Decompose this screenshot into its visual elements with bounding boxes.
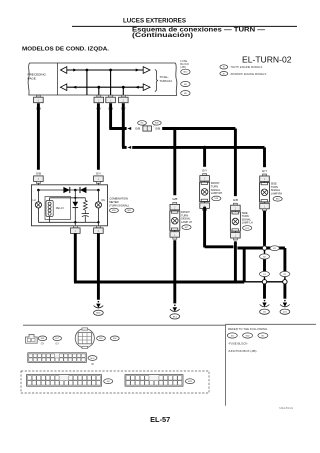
refer ovals — [227, 333, 237, 338]
inline connector oval on wire 3 — [280, 271, 290, 276]
side LH lamp ground wire — [234, 242, 237, 283]
link junction — [243, 248, 246, 282]
meter RH top connector — [94, 176, 104, 182]
connector face view small block — [26, 334, 38, 343]
wire below joint B1 — [264, 250, 266, 254]
tap junction node top-1 — [86, 69, 89, 72]
side turn signal lamp RH body — [264, 182, 266, 184]
svg-text:(TURN SIGNAL): (TURN SIGNAL) — [109, 203, 129, 207]
svg-text:MEL894G: MEL894G — [279, 406, 294, 410]
svg-text:REFER TO THE FOLLOWING.: REFER TO THE FOLLOWING. — [228, 327, 268, 331]
inline connector refs ovals — [138, 121, 147, 125]
svg-text:LH: LH — [32, 198, 35, 202]
refer box border vertical — [225, 324, 227, 406]
tap junction node bottom-1 — [97, 86, 100, 89]
refer box border top — [226, 323, 316, 325]
front RH lamp ground wire — [203, 207, 206, 248]
ground bus — [98, 281, 244, 284]
joint circle row link — [244, 281, 262, 283]
wire bus top — [61, 69, 144, 71]
tap wire bottom-1 — [98, 87, 100, 95]
front turn signal lamp LH label — [181, 210, 192, 224]
svg-text:LAMP LH: LAMP LH — [242, 221, 253, 225]
extra ref oval — [110, 336, 119, 341]
svg-text:: TD27Ti ENGINE MODELS: : TD27Ti ENGINE MODELS — [229, 65, 263, 69]
relay box — [45, 197, 71, 220]
wire drop to side turn signal lamp LH — [234, 129, 237, 197]
direction arrow on G/Y run — [127, 146, 131, 149]
svg-text:G/Y: G/Y — [202, 169, 207, 173]
svg-text:G/Y: G/Y — [262, 169, 267, 173]
meter bottom connector left — [74, 222, 76, 226]
node meter LH top — [37, 189, 40, 192]
arrow out left bottom — [61, 84, 67, 91]
svg-text:-FUSE BLOCK-: -FUSE BLOCK- — [228, 341, 248, 345]
side turn signal lamp LH bottom connector — [234, 231, 236, 232]
meter internal ground bus — [38, 221, 98, 223]
svg-text:MODELOS DE COND. IZQDA.: MODELOS DE COND. IZQDA. — [22, 47, 109, 53]
combination meter box U1 — [32, 185, 108, 226]
diode D2 — [80, 187, 86, 193]
footnote ZD oval — [220, 72, 228, 76]
fuse block ref oval 3 — [181, 91, 190, 96]
svg-text:LAMP RH: LAMP RH — [211, 191, 222, 195]
relay coil L1 — [46, 201, 53, 217]
wire bus bottom — [61, 86, 144, 88]
side turn signal lamp LH body — [234, 211, 236, 213]
side RH lamp ground wire — [263, 211, 266, 246]
connector block row3 A — [27, 375, 102, 387]
round connector ref oval — [97, 336, 106, 341]
arrow out left top — [61, 67, 67, 74]
resistor R1 — [83, 198, 87, 213]
svg-text:G/Y: G/Y — [96, 172, 101, 176]
svg-text:GY: GY — [41, 343, 45, 346]
side turn signal lamp RH bulb — [261, 189, 268, 196]
ground GND2 — [174, 305, 176, 306]
svg-text:G/B: G/B — [135, 127, 140, 131]
joint circle B1 — [262, 246, 266, 250]
meter ground wire right — [97, 233, 100, 299]
fuse block ref oval 2 — [181, 81, 190, 86]
svg-text:JUNCTION BOX (J/B): JUNCTION BOX (J/B) — [228, 349, 256, 353]
connector ref oval GY 2 — [53, 336, 62, 341]
direction arrow on G/B run — [127, 127, 131, 130]
arrow out right top — [143, 67, 150, 74]
direction arrow top left — [73, 69, 77, 72]
direction arrow top right — [136, 69, 140, 72]
wire drop to side turn signal lamp RH — [263, 147, 266, 167]
wire G/Y corner from band — [122, 103, 125, 147]
svg-text:G/B: G/B — [155, 127, 160, 131]
side turn signal lamp LH top connector — [233, 203, 237, 205]
node flasher center — [74, 189, 77, 192]
row3 B ref oval — [186, 379, 195, 384]
direction arrow bottom right — [135, 86, 139, 89]
junction front LH ground — [173, 280, 176, 283]
joint circle C2 — [283, 280, 287, 284]
svg-text:EL-57: EL-57 — [150, 415, 170, 424]
wire G/Y feed to meter RH — [97, 103, 100, 170]
svg-text:: ZD30DDTi ENGINE MODELS: : ZD30DDTi ENGINE MODELS — [229, 72, 266, 76]
round connector face view — [75, 329, 94, 348]
side turn signal lamp LH bulb — [232, 218, 239, 225]
dashed detail box — [21, 371, 209, 393]
ground GND3 — [264, 300, 266, 301]
side turn signal lamp LH label — [242, 211, 253, 225]
RH ground link — [205, 245, 234, 248]
front turn signal lamp LH body — [174, 210, 176, 212]
side turn signal lamp RH top connector — [263, 174, 267, 176]
junction node front RH feed — [203, 146, 206, 149]
flasher feed wire — [74, 190, 76, 202]
ground wire to GND3 — [263, 284, 266, 299]
joint ref oval B1 — [270, 246, 279, 251]
band connector at x=98.8 — [97, 95, 101, 97]
svg-text:EL-TURN-02: EL-TURN-02 — [242, 56, 292, 65]
joint circle C1 — [262, 280, 266, 284]
fuse block ref oval 1 — [181, 69, 190, 74]
side turn signal lamp RH bottom connector — [264, 202, 266, 203]
ground wire to GND4 — [283, 284, 286, 299]
row2 ref oval — [88, 356, 97, 361]
branch to second ground path — [267, 247, 285, 250]
tap wire bottom-2 — [122, 87, 124, 95]
diode D3 vertical — [73, 202, 79, 207]
svg-text:G/B: G/B — [233, 198, 238, 202]
svg-text:(Continuación): (Continuación) — [132, 32, 193, 39]
side turn signal lamp RH label — [271, 182, 282, 196]
front turn signal lamp RH label — [211, 181, 222, 195]
svg-text:G/B: G/B — [36, 172, 41, 176]
diode D1 — [63, 187, 69, 193]
header underline — [72, 25, 297, 27]
inline connector M5-B30 — [143, 126, 152, 131]
tap wire from top bus to left connector — [86, 70, 88, 95]
band connector at x=123.3 — [121, 95, 125, 97]
tap junction node top-2 — [109, 69, 112, 72]
meter internal top wire — [38, 189, 98, 191]
band connector at x=38.4 — [36, 95, 40, 97]
wire drop to front turn signal lamp LH — [173, 129, 176, 196]
front turn signal lamp RH bottom connector — [204, 202, 206, 203]
row3 A ref oval — [104, 379, 113, 384]
inline connector oval on wire 2 — [260, 271, 270, 276]
junction meter ground — [97, 280, 100, 283]
capacitor C1 — [82, 213, 89, 215]
front LH lamp ground wire — [173, 240, 176, 303]
meter LH top connector — [34, 176, 44, 182]
front turn signal lamp RH body — [204, 181, 206, 183]
junction node front LH feed — [173, 127, 176, 130]
front turn signal lamp LH bulb — [172, 217, 179, 224]
svg-text:RELAY: RELAY — [56, 206, 65, 210]
direction arrow bottom left — [73, 86, 77, 89]
connector ref oval GY 1 — [38, 336, 47, 341]
svg-text:(J/B): (J/B) — [180, 65, 186, 69]
divider line — [57, 63, 59, 95]
band connector at x=110.6 — [109, 95, 113, 97]
wire drop to front turn signal lamp RH — [203, 147, 206, 166]
ground bus jog — [74, 281, 100, 284]
svg-text:RH: RH — [102, 198, 106, 202]
front turn signal lamp LH bottom connector — [174, 230, 176, 231]
front turn signal lamp RH bulb — [201, 189, 208, 196]
wire G/B corner from band — [109, 103, 112, 128]
svg-text:LUCES EXTERIORES: LUCES EXTERIORES — [123, 17, 187, 24]
node meter RH top — [97, 189, 100, 192]
tap wire top-2 — [110, 70, 112, 95]
meter ref ovals — [109, 208, 118, 212]
footnote TD oval — [220, 65, 228, 69]
svg-text:TURN-04: TURN-04 — [160, 79, 173, 83]
svg-text:LAMP LH: LAMP LH — [181, 220, 192, 224]
front turn signal lamp LH top connector — [173, 202, 177, 204]
connector block row3 B — [125, 375, 183, 387]
svg-text:GY: GY — [55, 343, 59, 346]
connector block row2 M20 — [28, 353, 87, 363]
brace to next page — [155, 70, 158, 92]
svg-text:G/B: G/B — [172, 197, 177, 201]
meter ground wire left — [74, 233, 77, 282]
front turn signal lamp RH top connector — [203, 174, 207, 176]
meter bottom connector right — [97, 222, 99, 226]
svg-text:LAMP RH: LAMP RH — [271, 192, 282, 196]
wire G/B run to side LH corner — [162, 127, 235, 130]
wire G/B feed to meter LH — [37, 103, 40, 170]
tap junction node bottom-2 — [122, 86, 125, 89]
inline connector oval on wire 1 — [260, 254, 270, 259]
ground GND4 — [284, 300, 286, 301]
separator line — [23, 324, 226, 326]
arrow out right bottom — [143, 84, 150, 91]
svg-text:PAGE: PAGE — [28, 76, 36, 80]
fuse block ribbon outline — [28, 63, 87, 95]
ground GND1 — [97, 301, 99, 302]
